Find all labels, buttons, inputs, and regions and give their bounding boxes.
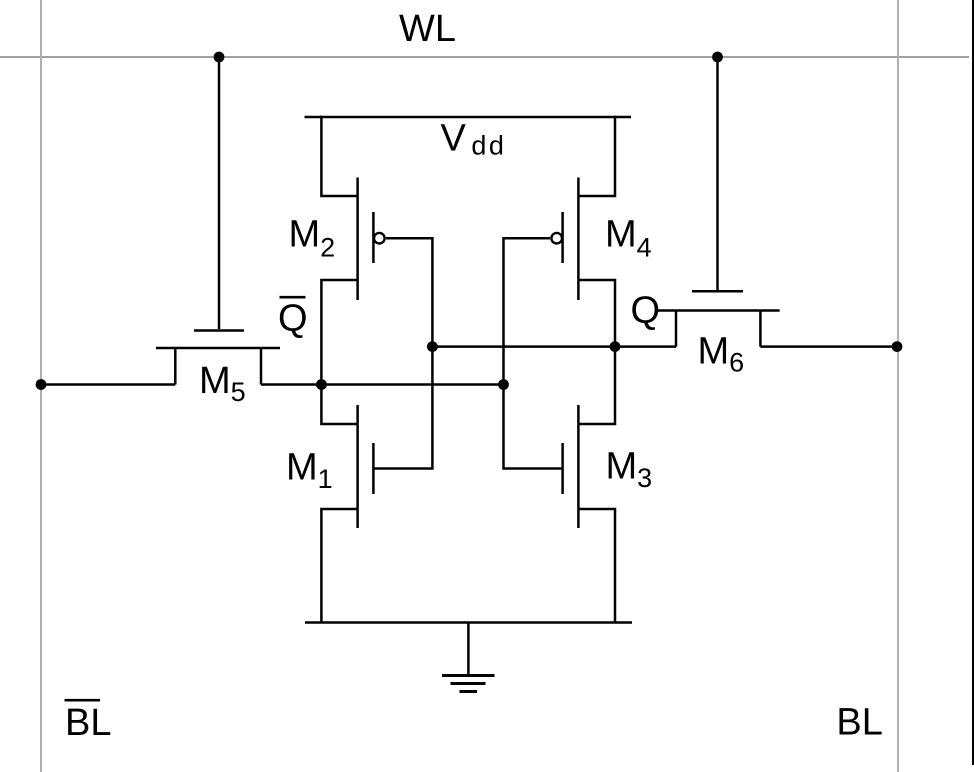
wire: WL to M6 gate	[716, 57, 719, 290]
junction dot: WL / M5 gate	[214, 52, 225, 63]
wire: bit line BL-bar (gray vertical, left)	[40, 0, 42, 772]
svg-text:Vdd: Vdd	[441, 118, 507, 161]
svg-text:M2: M2	[289, 214, 336, 263]
wire: M2 drain to Q-bar vertical to M1 drain	[321, 280, 357, 424]
transistor M1 (NMOS, left inverter pull-down)	[358, 405, 374, 528]
wire: M4 drain to Q vertical to M3 drain	[578, 280, 615, 424]
junction dot: Q-bar node	[316, 379, 327, 390]
wire: M6 drain to BL	[760, 345, 898, 348]
wire: M1 source to ground rail	[321, 509, 357, 623]
bubble: M2 PMOS gate circle	[374, 233, 385, 244]
wire: Vdd power rail	[305, 116, 632, 119]
wire: word line WL (gray horizontal)	[0, 56, 969, 58]
junction dot: M6 / BL	[892, 341, 903, 352]
wire: Q-bar to gates of M3/M4 (right gate line)	[504, 238, 563, 468]
node Q-bar label	[278, 297, 308, 339]
wire: upper cross-coupling (Q node to left gate line)	[432, 345, 615, 348]
wire: ground rail	[305, 621, 632, 624]
wire: Vdd rail to M4 source	[578, 116, 615, 196]
transistor M5 (NMOS access, left)	[156, 331, 280, 385]
wire: BL-bar to M5 source	[41, 383, 175, 386]
bubble: M4 PMOS gate circle	[551, 233, 562, 244]
svg-text:M6: M6	[698, 331, 745, 378]
wire: M3 source to ground rail	[578, 509, 615, 623]
node BL-bar label	[65, 700, 112, 744]
wire: WL to M5 gate	[218, 57, 221, 329]
wire: M5 drain to Q-bar node and to M3/M4 gates (lower cross-coupling)	[261, 383, 504, 386]
svg-text:BL: BL	[836, 702, 882, 744]
svg-text:M1: M1	[286, 447, 333, 495]
svg-text:M4: M4	[605, 214, 652, 263]
transistor M3 (NMOS, right inverter pull-down)	[563, 405, 579, 528]
transistor M6 (NMOS access, right)	[658, 291, 780, 346]
junction dot: BL-bar / M5	[36, 379, 47, 390]
junction dot: upper cross wire / left gate line	[427, 341, 438, 352]
svg-text:Q: Q	[631, 290, 661, 332]
junction dot: WL / M6 gate	[712, 52, 723, 63]
ground symbol	[442, 623, 495, 692]
svg-text:WL: WL	[399, 8, 456, 50]
wire: Q node to M6 source	[615, 345, 676, 348]
junction dot: Q node	[610, 341, 621, 352]
wire: Vdd rail to M2 source	[321, 116, 357, 196]
transistor M4 (PMOS, right inverter pull-up)	[563, 178, 579, 301]
svg-text:M5: M5	[199, 360, 246, 407]
wire: Q output of right inverter to gates of M1/M2 (left gate line)	[373, 238, 432, 468]
wire: bit line BL (gray vertical, right)	[897, 0, 899, 772]
svg-text:M3: M3	[606, 446, 653, 494]
junction dot: lower cross wire / right gate line	[498, 379, 509, 390]
transistor M2 (PMOS, left inverter pull-up)	[358, 178, 374, 301]
svg-text:BL: BL	[65, 702, 111, 744]
svg-text:Q: Q	[278, 298, 308, 340]
